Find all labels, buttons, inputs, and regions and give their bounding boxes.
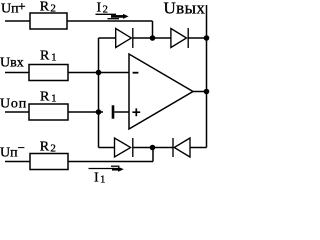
wire VD2 to output rail: [188, 37, 206, 39]
wire R2 top to corner: [67, 20, 153, 22]
node junction top diode row to output rail: [204, 35, 210, 41]
resistor R2 top body: [30, 13, 67, 29]
wire I2 arrow: [96, 14, 129, 19]
svg-text:R2: R2: [40, 139, 56, 154]
ground bar at op-amp noninverting input: [112, 105, 115, 118]
diode VD3: [115, 138, 133, 157]
svg-text:Uвх: Uвх: [0, 56, 24, 71]
wire I1 arrow: [89, 166, 124, 172]
diode VD1: [116, 28, 133, 48]
node junction Uвх at summing column: [96, 70, 102, 76]
wire VD4 to output rail corner: [190, 147, 207, 149]
node junction Uоп at summing column: [96, 109, 102, 115]
wire Uп- lead: [5, 161, 30, 163]
wire op-amp output to rail: [193, 91, 207, 93]
wire Uоп lead: [5, 111, 29, 113]
wire R2 bottom to riser: [68, 161, 153, 163]
wire summing node column: [98, 38, 100, 148]
diode VD4: [173, 138, 190, 157]
op-amp plus sign: [132, 108, 140, 116]
wire R1 lower stub past junction: [68, 111, 103, 113]
resistor R1 upper body: [29, 65, 68, 81]
svg-text:Uоп: Uоп: [0, 96, 27, 111]
diode VD2: [171, 28, 188, 48]
op-amp U1 body: [129, 54, 193, 129]
op-amp minus sign: [133, 72, 139, 74]
node junction op-amp output at rail: [204, 89, 210, 95]
svg-text:R1: R1: [40, 89, 57, 104]
wire output rail: [206, 5, 208, 148]
wire Uвх lead: [5, 72, 29, 74]
wire R1 upper to op-amp inverting input: [68, 72, 129, 74]
resistor R2 bottom body: [30, 154, 68, 170]
wire VD3 to VD4: [133, 147, 173, 149]
wire riser up to bottom diode row: [152, 148, 154, 162]
wire ground bar to op-amp + input: [114, 111, 129, 113]
svg-text:Uвых: Uвых: [164, 0, 206, 18]
wire bottom diode row: node column to VD3: [99, 147, 115, 149]
wire VD1 to VD2: [133, 37, 171, 39]
node junction top: Uп+ branch joins diode row: [150, 35, 156, 41]
wire Uп+ lead: [5, 20, 30, 22]
node junction bottom: Uп- branch joins diode row: [150, 145, 156, 151]
wire corner down to top diode row: [152, 21, 154, 38]
svg-text:R1: R1: [40, 49, 57, 64]
resistor R1 lower body: [29, 104, 68, 120]
wire top diode row: node column to VD1: [99, 37, 116, 39]
